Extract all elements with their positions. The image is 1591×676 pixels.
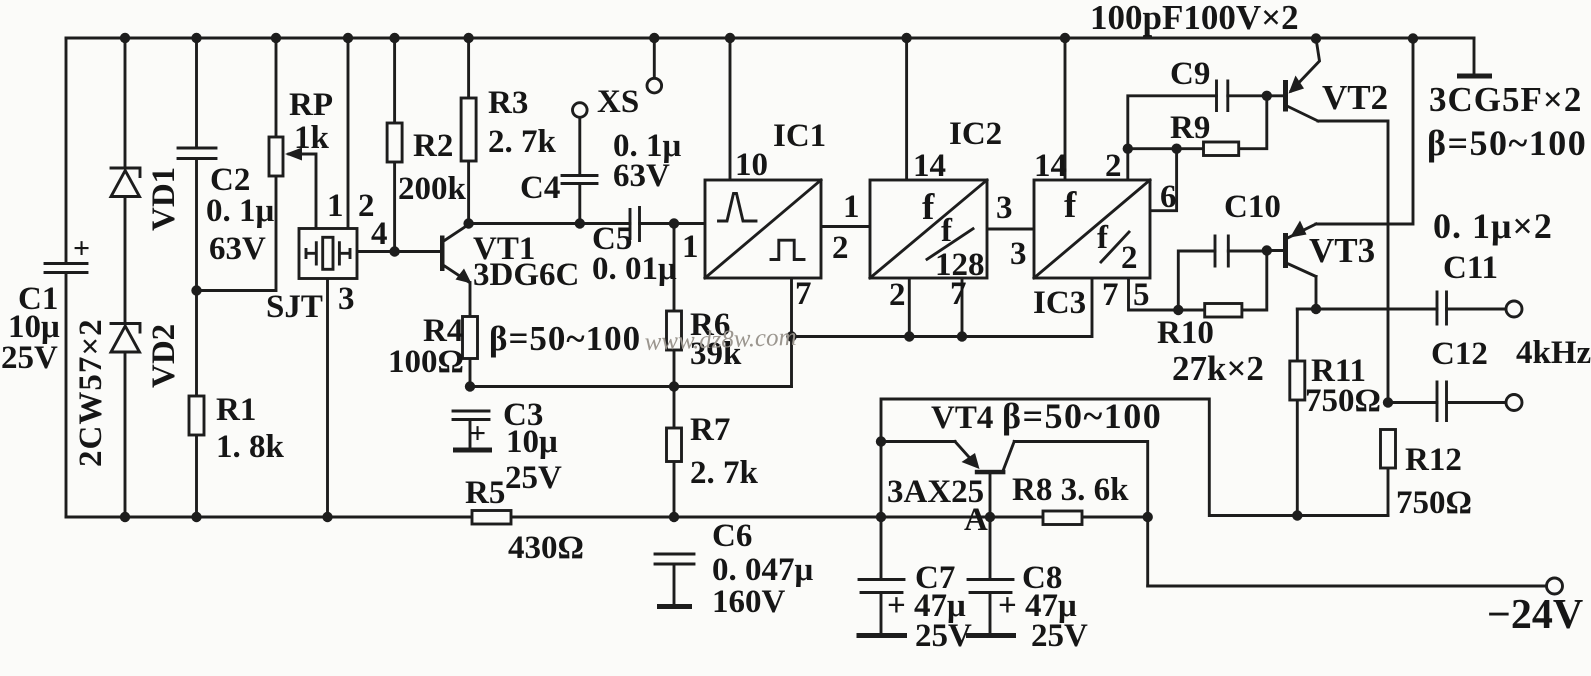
svg-text:VD2: VD2	[146, 324, 182, 388]
wire C4 top from XS socket	[578, 118, 581, 176]
wire VD1 VD2 branch	[124, 38, 127, 517]
zener diode VD2	[111, 324, 140, 353]
label R3	[488, 85, 557, 160]
wire SJT pin 2 from rail	[347, 38, 350, 229]
label C4	[520, 128, 682, 206]
wire R2 branch	[393, 38, 396, 252]
svg-text:β=50~100: β=50~100	[1002, 396, 1162, 436]
resistor R1	[189, 396, 204, 435]
svg-text:R7: R7	[690, 412, 730, 448]
svg-text:0. 01μ: 0. 01μ	[592, 251, 677, 287]
svg-text:3CG5F×2: 3CG5F×2	[1429, 80, 1582, 119]
label IC1	[682, 118, 860, 312]
svg-text:β=50~100: β=50~100	[489, 319, 641, 358]
label C5	[592, 221, 677, 287]
junction dots middle nets	[191, 218, 967, 391]
label R1	[216, 392, 285, 465]
svg-text:C11: C11	[1443, 250, 1498, 286]
svg-text:4kHz: 4kHz	[1516, 335, 1591, 371]
svg-text:SJT: SJT	[266, 289, 323, 325]
capacitor C3 polarized	[453, 411, 492, 450]
transistor VT2 3CG5F	[1283, 39, 1320, 112]
svg-text:R12: R12	[1405, 442, 1462, 478]
svg-text:R1: R1	[216, 392, 256, 428]
svg-text:3: 3	[996, 190, 1013, 226]
label R10	[1157, 315, 1264, 388]
svg-text:1: 1	[327, 188, 344, 224]
svg-text:C4: C4	[520, 170, 560, 206]
svg-text:7: 7	[1102, 277, 1119, 313]
wire R3 branch	[467, 38, 470, 224]
svg-text:A: A	[964, 502, 988, 538]
svg-text:2: 2	[1121, 240, 1138, 276]
svg-text:f: f	[922, 187, 935, 228]
output terminal upper	[1506, 301, 1522, 317]
svg-text:VT3: VT3	[1309, 231, 1375, 270]
svg-text:10μ: 10μ	[506, 424, 558, 460]
wire R11 column	[1296, 309, 1299, 516]
label C8	[998, 560, 1088, 654]
svg-text:R2: R2	[413, 128, 453, 164]
svg-text:1: 1	[682, 229, 699, 265]
svg-text:1: 1	[843, 189, 860, 225]
wire VT3 base	[1267, 249, 1283, 252]
svg-text:5: 5	[1133, 277, 1150, 313]
resistor R6	[667, 311, 682, 350]
svg-text:2: 2	[1105, 148, 1122, 184]
ground chassis bar top right	[1457, 74, 1492, 79]
wire IC1 pin2 to IC2 pin1	[821, 225, 870, 228]
wire IC2 pin3 to IC3 pin3	[987, 228, 1034, 231]
svg-text:7: 7	[795, 276, 812, 312]
svg-text:f: f	[1064, 185, 1077, 226]
wire IC2 pin 7 to bus	[961, 278, 964, 337]
wire VT2 base	[1267, 94, 1283, 97]
svg-text:10: 10	[735, 147, 768, 183]
svg-text:2CW57×2: 2CW57×2	[73, 318, 109, 467]
wire top supply rail	[66, 37, 1474, 40]
label VT1	[473, 231, 641, 358]
resistor R8	[1043, 511, 1082, 525]
svg-text:VT4: VT4	[931, 400, 993, 436]
capacitor C8 polarized	[966, 517, 1016, 636]
svg-text:VT2: VT2	[1322, 78, 1388, 117]
label R6	[690, 307, 742, 372]
wire VT3 emitter run up to rail	[1316, 39, 1413, 225]
svg-text:430Ω: 430Ω	[508, 530, 584, 566]
wire C2 R1 branch	[195, 38, 198, 517]
junction dots top rail	[120, 33, 1418, 44]
svg-text:C10: C10	[1224, 189, 1281, 225]
svg-text:C12: C12	[1431, 336, 1488, 372]
resistor R12	[1381, 430, 1396, 469]
capacitor C11	[1437, 292, 1447, 324]
capacitor C9	[1217, 81, 1228, 111]
svg-text:63V: 63V	[209, 231, 266, 267]
wire R4 bottom	[469, 359, 472, 387]
svg-text:200k: 200k	[398, 171, 467, 207]
wire VT3 collector down	[1289, 264, 1317, 309]
svg-text:−24V: −24V	[1487, 592, 1583, 638]
wire VT4 emitter junction down to bottom rail	[880, 442, 883, 518]
wire left edge vertical (C1 branch)	[65, 38, 68, 517]
potentiometer RP	[269, 137, 302, 176]
divider IC3	[1034, 180, 1150, 278]
wire node2 row to R9	[1128, 96, 1267, 149]
resistor R9	[1204, 142, 1239, 156]
svg-text:R3: R3	[488, 85, 528, 121]
wire IC3 pin 6 to R9 row	[1150, 149, 1177, 211]
wire -24V supply line	[1148, 585, 1546, 588]
zener diode VD1	[111, 168, 140, 197]
wire XS pin from rail	[653, 38, 656, 78]
wire SJT pin 4 to VT1 base	[357, 250, 440, 253]
wire C11 row	[1297, 308, 1505, 311]
wire VT1 emitter down to R4	[469, 283, 472, 317]
capacitor C7 polarized	[857, 517, 908, 636]
label C1	[1, 232, 90, 376]
svg-text:R5: R5	[465, 475, 505, 511]
wire bottom rail	[66, 516, 1148, 519]
svg-text:0. 047μ: 0. 047μ	[712, 552, 814, 588]
label IC2	[889, 116, 1027, 313]
capacitor C4	[562, 176, 597, 184]
svg-text:0. 1μ: 0. 1μ	[206, 193, 275, 229]
wire RP wiper to SJT pin 1	[289, 154, 316, 229]
wire R12 bottom	[1387, 468, 1390, 516]
wire IC1 pin 10 from rail	[729, 38, 732, 180]
junction dots bottom rail	[120, 512, 1153, 522]
divider IC2	[870, 180, 987, 278]
wire IC3 pin 5 to R10	[1129, 278, 1205, 310]
label R11	[1305, 353, 1381, 419]
svg-text:C6: C6	[712, 518, 752, 554]
label R7	[690, 412, 759, 491]
capacitor C5	[630, 208, 640, 241]
wire IC1 pin 7 down to feedback row	[790, 278, 793, 387]
wire C4 bottom	[578, 184, 581, 224]
svg-text:7: 7	[950, 276, 967, 312]
resistor R5	[472, 511, 511, 525]
svg-text:C9: C9	[1170, 56, 1210, 92]
capacitor C6	[655, 554, 694, 607]
junction dots right nets	[876, 91, 1393, 521]
svg-text:R8 3. 6k: R8 3. 6k	[1012, 472, 1129, 508]
svg-text:100pF100V×2: 100pF100V×2	[1090, 0, 1299, 37]
resistor R10	[1205, 304, 1242, 318]
label R5	[465, 475, 584, 566]
label R4	[388, 313, 464, 380]
wire IC2 pin 2 to bus	[908, 278, 911, 337]
wire C10 left riser	[1178, 251, 1267, 310]
svg-text:25V: 25V	[915, 618, 972, 654]
output terminal lower	[1506, 395, 1522, 411]
svg-text:R10: R10	[1157, 315, 1214, 351]
svg-text:0. 1μ×2: 0. 1μ×2	[1433, 206, 1553, 246]
svg-text:14: 14	[1034, 148, 1067, 184]
crystal oscillator SJT	[299, 229, 357, 279]
label RP	[289, 87, 333, 156]
capacitor C1	[45, 264, 87, 273]
wire R10 right riser to C10/VT3 base	[1242, 251, 1267, 311]
svg-text:750Ω: 750Ω	[1305, 383, 1381, 419]
socket XS pin lower	[573, 103, 588, 118]
svg-text:+: +	[469, 417, 486, 450]
resistor R3	[461, 98, 476, 161]
wire C2 bottom to RP bottom	[197, 176, 277, 291]
wire right chassis drop	[1473, 38, 1476, 73]
label 3CG5F x2	[1427, 80, 1587, 163]
svg-text:3DG6C: 3DG6C	[473, 257, 579, 293]
svg-text:IC3: IC3	[1033, 285, 1086, 321]
wire R6 branch	[673, 224, 676, 387]
transistor VT3 3CG5F	[1283, 221, 1316, 269]
wire C9 row	[1128, 96, 1267, 149]
wire VT4 base to node A	[989, 474, 992, 517]
svg-text:2. 7k: 2. 7k	[690, 455, 759, 491]
svg-text:25V: 25V	[505, 460, 562, 496]
terminal -24V	[1547, 578, 1563, 594]
svg-text:4: 4	[371, 216, 388, 252]
svg-text:XS: XS	[597, 84, 639, 120]
svg-text:2: 2	[889, 277, 906, 313]
svg-text:3: 3	[338, 281, 355, 317]
wire bottom right bus	[881, 399, 1388, 516]
label C3	[469, 397, 562, 496]
label C12 4kHz	[1431, 335, 1591, 372]
svg-text:f: f	[941, 213, 953, 249]
capacitor C12	[1437, 382, 1447, 421]
svg-text:1k: 1k	[294, 120, 330, 156]
resistor R4	[463, 317, 478, 359]
label IC3	[1033, 148, 1177, 321]
capacitor C10	[1215, 236, 1228, 266]
wire IC ground bus y=336.5	[792, 278, 1093, 337]
wire VT4 emitter row	[881, 440, 955, 443]
svg-text:2: 2	[832, 230, 849, 266]
wire RP top	[275, 38, 278, 137]
resistor R7	[667, 428, 682, 462]
converter IC1	[705, 180, 821, 278]
svg-text:RP: RP	[289, 87, 333, 123]
svg-text:R9: R9	[1170, 110, 1210, 146]
svg-text:3: 3	[1010, 236, 1027, 272]
svg-text:25V: 25V	[1, 340, 58, 376]
svg-text:VD1: VD1	[146, 167, 182, 231]
svg-text:14: 14	[913, 148, 946, 184]
label C7	[887, 560, 972, 654]
wire collector row y=223.5 with C5 gap	[469, 222, 705, 225]
transistor VT1 3DG6C	[440, 225, 472, 284]
label R12	[1396, 442, 1472, 521]
svg-text:IC1: IC1	[773, 118, 826, 154]
label R2	[398, 128, 467, 207]
resistor R11	[1290, 361, 1305, 400]
svg-text:+: +	[73, 232, 90, 265]
capacitor C2	[178, 148, 216, 159]
resistor R2	[387, 123, 402, 162]
wire IC3 pin 14 from rail	[1064, 38, 1067, 180]
wire IC2 pin 14 from rail	[905, 38, 908, 180]
transistor VT4 3AX25	[955, 442, 1005, 475]
svg-text:750Ω: 750Ω	[1396, 485, 1472, 521]
label SJT pins	[266, 188, 388, 325]
svg-text:1. 8k: 1. 8k	[216, 429, 285, 465]
svg-text:www.dz8w.com: www.dz8w.com	[644, 324, 797, 356]
label VT4	[887, 396, 1162, 510]
svg-text:25V: 25V	[1031, 618, 1088, 654]
wire VT2 collector to R12 column	[1288, 107, 1388, 403]
svg-text:β=50~100: β=50~100	[1427, 123, 1587, 163]
label C6	[712, 518, 814, 620]
wire VT4 collector run	[1004, 442, 1148, 587]
svg-text:63V: 63V	[613, 158, 670, 194]
label C2	[206, 162, 275, 267]
wire SJT pin 3 to bottom rail	[326, 279, 329, 518]
socket XS pin upper	[647, 78, 662, 93]
wire IC3 pin 2 up	[1126, 149, 1129, 180]
svg-text:27k×2: 27k×2	[1172, 349, 1264, 388]
svg-text:6: 6	[1160, 179, 1177, 215]
wire R7 branch	[673, 387, 676, 518]
svg-text:160V: 160V	[712, 584, 786, 620]
wire C12 row	[1388, 401, 1506, 404]
svg-text:f: f	[1097, 220, 1109, 256]
svg-text:2. 7k: 2. 7k	[488, 124, 557, 160]
svg-text:IC2: IC2	[949, 116, 1002, 152]
wire emitter feedback row y=386	[470, 385, 792, 388]
svg-text:100Ω: 100Ω	[388, 344, 464, 380]
